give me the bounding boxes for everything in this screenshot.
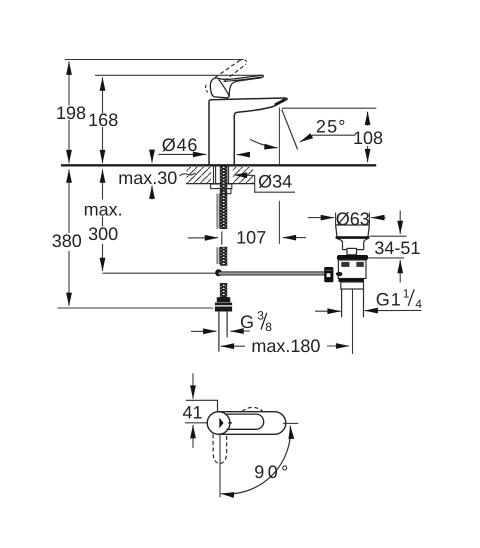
dimension diameter 46	[158, 135, 249, 155]
top view back edge bracket	[186, 400, 218, 411]
svg-text:8: 8	[265, 320, 272, 334]
right centerline	[283, 422, 298, 424]
svg-text:Ø46: Ø46	[162, 135, 198, 155]
svg-text:max.180: max.180	[251, 336, 320, 356]
deck hatching right	[233, 167, 253, 183]
svg-text:1: 1	[403, 287, 410, 301]
drain extension lines	[336, 213, 370, 225]
label 90 deg	[254, 462, 291, 482]
svg-text:4: 4	[415, 297, 422, 311]
drain rosette cup	[336, 225, 370, 238]
top view handle inner stadium	[227, 414, 264, 429]
deck hatching left	[187, 167, 212, 183]
svg-text:Ø34: Ø34	[258, 171, 292, 191]
actuator connector	[324, 267, 342, 282]
drain gasket flange	[337, 255, 368, 260]
hose centerline in 107 gap	[221, 231, 223, 244]
drain top-hat cylinder	[347, 248, 357, 254]
lever handle solid	[210, 75, 263, 98]
label G3/8	[240, 309, 272, 335]
hose end fitting G3/8	[215, 297, 232, 311]
svg-text:G: G	[240, 312, 254, 332]
countertop deck line	[61, 164, 376, 166]
deck bottom edge	[186, 183, 255, 185]
svg-text:168: 168	[88, 110, 118, 130]
G3/8 tube	[219, 312, 227, 352]
junction dot	[215, 269, 222, 276]
dashed handle down position	[213, 434, 227, 463]
reference line top 198	[65, 59, 244, 61]
top view outer stadium	[219, 412, 286, 435]
svg-text:300: 300	[88, 224, 118, 244]
dimension 107	[188, 228, 306, 248]
svg-text:max.: max.	[84, 199, 123, 219]
svg-text:41: 41	[182, 403, 202, 423]
dimension 168	[88, 77, 118, 163]
svg-text:3: 3	[257, 309, 264, 323]
label G1 1/4	[315, 287, 422, 312]
drain collar	[341, 282, 364, 289]
mounting washer	[211, 184, 232, 189]
drain body with slots	[338, 260, 366, 279]
dimension max.180	[221, 336, 349, 356]
90 deg arc	[221, 426, 291, 494]
dimension diameter 34	[234, 171, 295, 192]
svg-text:34-51: 34-51	[374, 238, 420, 258]
spout aerator mark	[275, 99, 286, 105]
svg-text:25°: 25°	[316, 117, 347, 137]
dimension diameter 63	[308, 209, 386, 229]
label 25 deg	[313, 117, 356, 137]
svg-text:198: 198	[56, 103, 86, 123]
svg-text:380: 380	[52, 231, 82, 251]
drain body bottom band	[339, 279, 365, 283]
dimension 41	[182, 374, 208, 448]
dimension 108	[282, 108, 383, 162]
vertical reference line under spout	[278, 108, 280, 244]
svg-text:90°: 90°	[254, 462, 291, 482]
svg-text:Ø63: Ø63	[336, 209, 370, 229]
380 bottom reference line	[58, 307, 214, 309]
svg-text:107: 107	[236, 228, 266, 248]
pop-up actuator rod horizontal	[219, 272, 325, 276]
dimension G3/8 arrows	[191, 330, 250, 332]
top view body circle	[207, 412, 230, 435]
lever handle raised dashed	[205, 59, 246, 92]
mounting nut	[221, 189, 231, 194]
handle direction triangle	[219, 418, 232, 429]
reference line top 168	[95, 74, 263, 76]
vertical centerline bottom	[219, 435, 221, 497]
drain tailpipe walls	[342, 289, 364, 317]
svg-text:max.30: max.30	[118, 168, 177, 188]
svg-text:G1: G1	[376, 290, 402, 310]
faucet body outline	[209, 98, 287, 165]
drain neck	[338, 239, 368, 250]
dimension 198	[56, 62, 86, 164]
300 bottom reference line	[103, 272, 219, 274]
drain tailpipe centerline	[352, 289, 354, 354]
braid middle segment	[220, 247, 227, 265]
dashed swing hump	[242, 407, 263, 411]
dimension max 300	[84, 169, 123, 271]
25 deg leader arrow	[300, 135, 313, 142]
mounting shank through deck	[214, 166, 229, 184]
braid lower segment	[220, 283, 227, 297]
pop-up rod	[217, 194, 219, 264]
threaded rod braid upper	[220, 166, 227, 229]
svg-text:108: 108	[353, 128, 383, 148]
25 deg arc with arrow	[250, 139, 278, 148]
water stream 25 deg line	[282, 109, 298, 149]
dimension 34-51	[368, 211, 420, 283]
dimension max.30	[118, 151, 195, 200]
dimension max 380	[52, 169, 82, 306]
